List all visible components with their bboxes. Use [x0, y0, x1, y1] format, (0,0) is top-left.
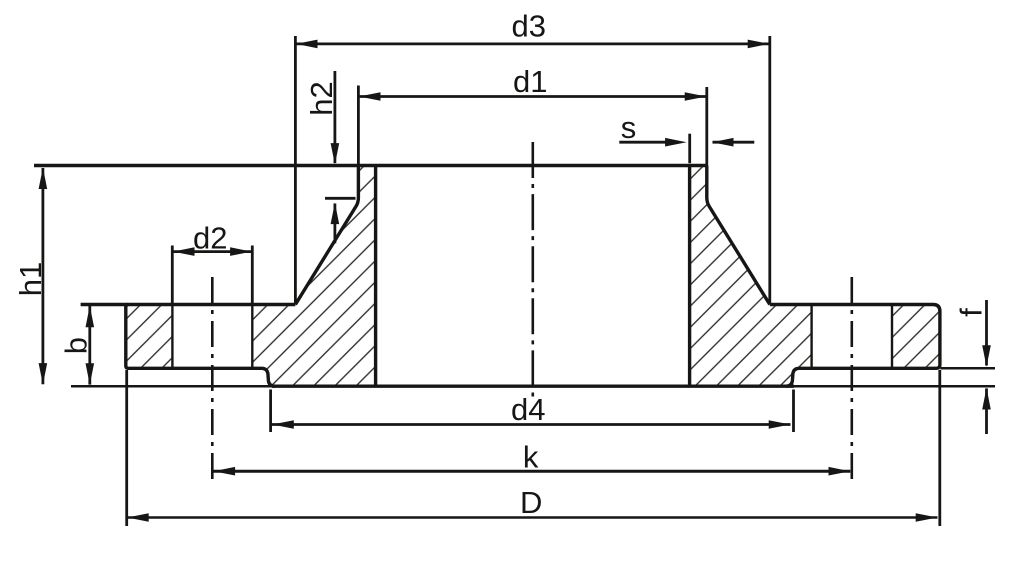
- svg-text:d2: d2: [193, 221, 227, 256]
- svg-text:d3: d3: [511, 9, 545, 44]
- svg-text:b: b: [59, 337, 94, 354]
- svg-text:d4: d4: [511, 392, 545, 427]
- svg-text:k: k: [523, 439, 539, 474]
- svg-text:d1: d1: [513, 64, 547, 99]
- svg-text:s: s: [621, 110, 637, 145]
- svg-text:D: D: [520, 485, 542, 520]
- svg-text:h1: h1: [13, 262, 48, 296]
- svg-text:f: f: [954, 308, 989, 317]
- svg-text:h2: h2: [304, 81, 339, 115]
